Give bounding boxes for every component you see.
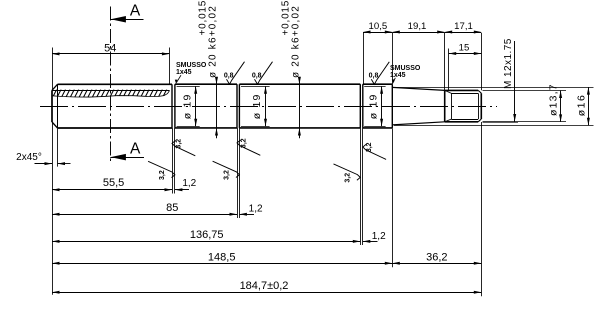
dimension 15 (thread length) [449, 53, 482, 55]
surface finish 0,8 on journal 3 [371, 62, 389, 85]
svg-text:A: A [130, 3, 141, 20]
extension x=444.7 up [444, 33, 446, 90]
svg-text:ø 20 k6+0,02: ø 20 k6+0,02 [290, 5, 301, 78]
svg-text:3,2: 3,2 [366, 142, 373, 152]
dimension 136,75 [52, 241, 360, 243]
svg-text:ø13,7: ø13,7 [548, 83, 560, 116]
thread minor bottom [452, 119, 479, 121]
section 2 top edge [239, 83, 360, 85]
extension x=363.0 up [363, 33, 365, 84]
shaft centerline [40, 106, 497, 108]
thread major top [445, 89, 479, 91]
section arrow A bottom [110, 157, 144, 159]
section arrow A top [110, 19, 143, 21]
svg-text:15: 15 [459, 43, 470, 54]
dimension 1,2 groove2 [239, 214, 254, 216]
svg-text:SMUSSO: SMUSSO [176, 62, 207, 69]
svg-text:0,8: 0,8 [369, 73, 379, 80]
dimension 1,2 groove1 [175, 189, 189, 191]
svg-text:54: 54 [104, 42, 116, 54]
end chamfer top [478, 90, 481, 93]
dimension 184,7 +-0,2 [52, 292, 481, 294]
svg-text:17,1: 17,1 [454, 21, 473, 32]
dimension 19,1 [392, 32, 444, 34]
shaft left end face [51, 90, 53, 122]
taper bottom edge [392, 122, 444, 125]
dimension o20 k6 #1 [216, 77, 218, 138]
groove 3 [359, 84, 361, 128]
svg-text:3,2: 3,2 [240, 138, 247, 148]
svg-text:148,5: 148,5 [208, 251, 236, 263]
svg-text:ø 19: ø 19 [181, 93, 193, 119]
dimension o16 [588, 87, 590, 125]
svg-text:19,1: 19,1 [408, 21, 427, 32]
surface finish 0,8 on seat 1 [227, 62, 245, 84]
svg-text:10,5: 10,5 [369, 21, 388, 32]
svg-text:+0,015: +0,015 [281, 0, 292, 36]
section 1 (o20k6 seat) top edge [175, 83, 237, 85]
extension x=481.3 up / down [481, 33, 483, 90]
svg-text:A: A [130, 141, 141, 158]
chamfer edge line [57, 84, 59, 128]
thread major bottom [445, 121, 479, 123]
svg-text:1x45: 1x45 [176, 69, 192, 76]
svg-text:M 12x1.75: M 12x1.75 [503, 38, 514, 89]
surface finish 3,2 groove3 (upper) [363, 144, 386, 159]
keyway floor line (broken-out section) [52, 90, 169, 92]
svg-text:55,5: 55,5 [103, 177, 124, 189]
big section top edge [58, 83, 173, 85]
thread runout line [451, 93, 453, 119]
o13,7 bottom extension [483, 121, 519, 123]
end chamfer bottom [478, 119, 481, 122]
svg-text:ø16: ø16 [576, 94, 588, 117]
journal 3 bottom edge [363, 127, 393, 129]
groove2 extensions below [237, 128, 239, 218]
thread entry chamfer bottom [445, 119, 452, 122]
keyway hatching [48, 89, 171, 98]
surface finish 0,8 on section 2 [255, 62, 273, 84]
dimension 17,1 [445, 32, 482, 34]
taper top edge [392, 87, 444, 90]
surface finish 3,2 groove3 (lower) [334, 164, 361, 180]
extension x=392.3 up / down [392, 33, 394, 84]
svg-text:85: 85 [166, 202, 178, 214]
surface finish 3,2 groove1 (upper) [172, 141, 195, 156]
dimension 54 (keyway) [52, 53, 169, 55]
dimension 1,2 groove3 [363, 241, 378, 243]
thread start shoulder [444, 90, 446, 121]
svg-text:1x45: 1x45 [390, 72, 406, 79]
dimension o19 groove 1 [177, 86, 200, 88]
svg-text:1,2: 1,2 [182, 178, 196, 189]
svg-text:3,2: 3,2 [159, 170, 166, 180]
surface finish 3,2 groove2 (lower) [213, 161, 240, 177]
right end face [480, 93, 482, 119]
section 2 bottom edge [239, 127, 360, 129]
svg-text:+0,015: +0,015 [198, 0, 209, 36]
extension line left end x=52 [52, 48, 54, 91]
extension lines o16 [394, 87, 594, 89]
dimension o13,7 [560, 91, 562, 122]
svg-text:ø 19: ø 19 [251, 93, 263, 119]
thread minor top [452, 93, 479, 95]
left chamfer 2x45 top [52, 84, 58, 90]
svg-text:3,2: 3,2 [345, 173, 352, 183]
thread end line [478, 93, 480, 119]
extension x=448.7 up (thread length) [448, 49, 450, 91]
groove 2 [236, 84, 238, 128]
extension lines o13,7 [483, 90, 567, 92]
thread entry chamfer top [445, 90, 452, 93]
journal 3 right shoulder [391, 84, 393, 128]
svg-text:1,2: 1,2 [249, 204, 263, 215]
dimension o20 k6 #2 [299, 77, 301, 138]
svg-text:184,7±0,2: 184,7±0,2 [240, 280, 289, 292]
svg-text:SMUSSO: SMUSSO [390, 65, 421, 72]
svg-text:ø 19: ø 19 [367, 93, 379, 119]
section plane A-A line [110, 7, 112, 164]
surface finish 3,2 groove2 (upper) [237, 140, 260, 155]
dimension 55,5 [52, 189, 172, 191]
dimension 10,5 [363, 32, 392, 34]
keyway wavy break line [52, 90, 169, 97]
surface finish 3,2 groove1 (lower) [148, 161, 175, 177]
svg-text:1,2: 1,2 [372, 231, 386, 242]
extension line keyway end x=169.4 [169, 48, 171, 85]
dimension 148,5 [52, 263, 392, 265]
svg-text:0,8: 0,8 [224, 73, 234, 80]
groove3 extensions below [360, 128, 362, 245]
svg-text:2x45°: 2x45° [16, 152, 42, 163]
dimension 85 [52, 214, 237, 216]
svg-text:3,2: 3,2 [224, 170, 231, 180]
svg-text:ø 20 k6+0,02: ø 20 k6+0,02 [208, 5, 219, 78]
dimension 36,2 [392, 263, 481, 265]
svg-text:136,75: 136,75 [190, 229, 224, 241]
svg-text:0,8: 0,8 [252, 73, 262, 80]
journal 3 top edge [363, 83, 393, 85]
svg-text:36,2: 36,2 [426, 251, 447, 263]
big section bottom edge [58, 127, 173, 129]
groove 1 (relief, 1.2 wide) [171, 84, 173, 128]
thread callout M12x1.75 [514, 41, 516, 122]
extension chamfer x=57.5 below [57, 128, 59, 166]
left chamfer 2x45 bottom [52, 122, 58, 128]
dimension o19 groove 2 [241, 86, 270, 88]
groove1 extensions below [172, 128, 174, 194]
svg-text:3,2: 3,2 [175, 139, 182, 149]
section 1 bottom edge [175, 127, 237, 129]
dimension o19 groove 3 [364, 86, 385, 88]
